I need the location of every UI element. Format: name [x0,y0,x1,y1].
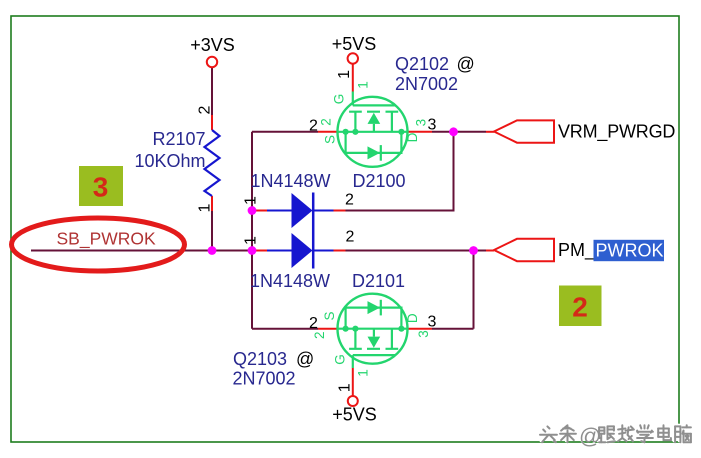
svg-text:PM_: PM_ [558,240,596,261]
svg-text:D2101: D2101 [352,271,405,291]
pin stub D2100 cathode [334,210,346,212]
pin stub Q2103 source [318,328,338,330]
svg-text:2N7002: 2N7002 [233,369,296,389]
junction PM node [469,246,478,255]
wire D2101 cathode to PM_PWROK connector [346,250,487,252]
svg-text:1: 1 [243,196,260,205]
pin stub Q2102 gate from +5VS [352,64,354,92]
svg-text:2: 2 [318,118,333,126]
svg-text:Q2102: Q2102 [395,54,449,74]
svg-text:G: G [331,94,346,105]
power terminal +5VS (bottom) [348,396,358,406]
svg-text:@: @ [579,424,601,449]
annotation box 3 [79,166,123,206]
wire Q2102 source to branch [252,131,318,133]
svg-text:S: S [323,135,338,144]
annotation box 2 [559,286,602,327]
svg-text:3: 3 [93,172,109,203]
pin stub Q2103 drain [408,328,433,330]
junction VRM node [449,127,458,136]
svg-text:2: 2 [309,118,318,135]
svg-text:+5VS: +5VS [332,34,377,54]
svg-text:2: 2 [312,332,327,340]
wire +3VS terminal to R2107 [211,67,213,115]
svg-text:2: 2 [345,191,354,208]
svg-text:1: 1 [336,383,353,392]
svg-text:D: D [405,132,420,142]
wire SB_PWROK net horizontal from left edge [31,250,254,252]
diode D2101 1N4148W [267,250,292,252]
shared cathode bars D2100/D2101 [312,193,315,269]
wire riser from PM node down to Q2103 drain [432,251,474,329]
off-page connector VRM_PWRGD [494,120,554,142]
svg-text:1: 1 [336,70,353,79]
wire riser from VRM node down to D2100 cathode [346,132,454,211]
svg-text:G: G [333,354,348,365]
wire Q2103 source to branch [252,328,318,330]
pin stub Q2102 drain [408,131,433,133]
transistor Q2102 (MOSFET, 2N7002) [338,97,408,167]
svg-text:@: @ [457,54,475,74]
svg-text:2N7002: 2N7002 [395,74,458,94]
svg-text:2: 2 [309,315,318,332]
pin stub D2101 anode [254,250,268,252]
svg-text:2: 2 [197,105,214,114]
junction R2107/SB_PWROK [208,246,217,255]
svg-text:Q2103: Q2103 [233,349,287,369]
svg-text:3: 3 [428,314,437,331]
diode D2100 1N4148W [267,210,292,212]
junction branch/SB_PWROK [248,246,257,255]
svg-text:1: 1 [356,81,371,89]
svg-text:@: @ [296,349,314,369]
svg-text:+3VS: +3VS [190,35,235,55]
svg-text:3: 3 [414,119,429,127]
svg-text:PWROK: PWROK [596,241,664,261]
svg-text:D: D [405,313,420,323]
resistor R2107 [205,130,220,196]
svg-text:3: 3 [428,117,437,134]
pin stub R2107 pin2 [211,115,213,130]
svg-text:1: 1 [243,236,260,245]
svg-text:+5VS: +5VS [332,405,377,425]
svg-text:1N4148W: 1N4148W [250,271,330,291]
watermark 头条@跟我学电脑 [539,422,691,448]
svg-text:SB_PWROK: SB_PWROK [57,229,157,250]
power terminal +5VS (top) [348,53,358,63]
svg-text:1: 1 [197,203,214,212]
svg-text:S: S [322,311,337,320]
pin stub D2100 anode [254,210,268,212]
annotation ellipse around SB_PWROK [12,218,185,271]
wire Q2102 drain to VRM_PWRGD connector [432,131,486,133]
pin stub Q2103 gate to +5VS [352,358,354,368]
svg-text:3: 3 [416,330,431,338]
wire vertical branch joining sources and diode anodes [251,132,253,329]
transistor Q2103 (MOSFET, 2N7002) [338,294,408,364]
svg-text:1: 1 [356,369,371,377]
pin stub Q2102 source [318,131,338,133]
pin stub VRM_PWRGD connector pin [486,131,494,133]
svg-text:R2107: R2107 [152,129,205,149]
svg-text:2: 2 [572,292,588,323]
svg-text:10KOhm: 10KOhm [134,151,205,171]
off-page connector PM_PWROK [494,239,554,261]
svg-text:2: 2 [346,229,355,246]
wire R2107 bottom to SB_PWROK net [211,211,213,251]
power terminal +3VS [207,57,217,67]
highlighted net name PWROK [594,240,665,261]
svg-text:VRM_PWRGD: VRM_PWRGD [558,122,675,143]
junction branch/D2100 [248,206,257,215]
pin stub PM_PWROK connector pin [486,250,494,252]
svg-text:D2100: D2100 [353,171,406,191]
pin stub R2107 pin1 [211,196,213,211]
svg-text:1N4148W: 1N4148W [251,171,331,191]
pin stub D2101 cathode [334,250,346,252]
